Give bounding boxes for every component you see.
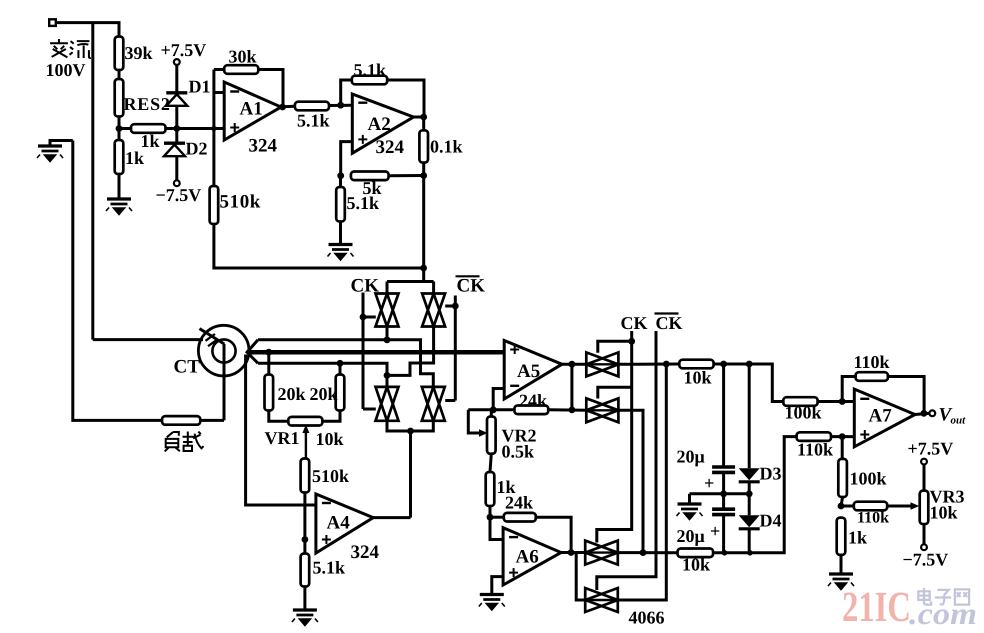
- svg-text:100k: 100k: [850, 469, 887, 489]
- op-amp A1: [224, 82, 281, 140]
- wire 510k down to block bottom: [214, 224, 424, 268]
- node 0.1k-5k junction: [420, 172, 427, 179]
- svg-text:39k: 39k: [125, 43, 153, 63]
- node A5 output: [569, 361, 576, 368]
- svg-text:24k: 24k: [505, 493, 533, 513]
- wire A2 output: [414, 116, 425, 119]
- svg-text:5.1k: 5.1k: [354, 60, 387, 80]
- ground bottom right: [829, 572, 853, 575]
- resistor 39k: [115, 37, 124, 71]
- wire CT secondary bottom: [258, 363, 387, 387]
- analog switch lower-left: [376, 387, 399, 421]
- wire 110k to VR3 wiper: [887, 505, 911, 508]
- node 20k tap: [337, 360, 344, 367]
- resistor 510k A1: [212, 129, 215, 187]
- wire G2 output drop: [618, 410, 643, 552]
- wire VR3 to -7.5V: [923, 524, 926, 544]
- svg-text:1k: 1k: [848, 528, 867, 548]
- wire left rail down to CT primary: [91, 23, 94, 340]
- wire connector upper gates: [387, 280, 434, 283]
- node 20k tap middle: [265, 349, 272, 356]
- svg-text:30k: 30k: [229, 47, 257, 67]
- node 24k right: [569, 407, 576, 414]
- analog switch G4: [585, 588, 618, 612]
- svg-text:24k: 24k: [519, 391, 547, 411]
- resistor 110k horizontal: [841, 505, 854, 508]
- wire A1 feedback vertical: [212, 70, 215, 129]
- node on CT top wire: [384, 336, 391, 343]
- wire feedback riser: [570, 364, 573, 410]
- label AC 100V: [50, 39, 68, 57]
- wire node row to opamp: [166, 127, 225, 130]
- node A1 output: [279, 104, 286, 111]
- wire 510k down through inputs: [303, 493, 306, 554]
- diode D4: [748, 494, 751, 516]
- svg-text:A7: A7: [869, 406, 893, 427]
- svg-text:10k: 10k: [930, 503, 958, 523]
- wire G2 control: [598, 387, 632, 398]
- wire G3 row through: [585, 551, 618, 553]
- ground A6: [480, 593, 504, 596]
- svg-text:10k: 10k: [682, 555, 710, 575]
- terminal AC input: [49, 19, 56, 26]
- svg-text:5.1k: 5.1k: [297, 111, 330, 131]
- wire 24k feedback row: [468, 408, 514, 411]
- wire 30k to A1 output: [258, 70, 283, 108]
- svg-text:100k: 100k: [785, 403, 822, 423]
- terminal -7.5V: [174, 180, 180, 186]
- svg-text:10k: 10k: [316, 429, 344, 449]
- node 5k left: [337, 172, 344, 179]
- CT core marks: [206, 334, 216, 341]
- wire G1 row through: [586, 363, 618, 365]
- op-amp A5: [504, 341, 562, 400]
- svg-text:D4: D4: [760, 511, 782, 531]
- wire CT primary from rail: [93, 338, 203, 341]
- svg-text:RES2: RES2: [124, 94, 171, 114]
- resistor 24k A5 feedback: [514, 406, 548, 415]
- analog switch upper-left CK: [376, 294, 399, 327]
- CT primary diagonal: [200, 329, 225, 344]
- svg-text:+7.5V: +7.5V: [161, 40, 207, 60]
- wire load to CT: [200, 419, 224, 422]
- VR1 wiper arrow: [305, 429, 307, 459]
- wire A6 output: [561, 551, 585, 554]
- node A6 feedback: [568, 549, 575, 556]
- resistor 1k VR2 chain: [490, 454, 491, 472]
- ground below 1k: [107, 197, 131, 200]
- wire A1 output: [283, 105, 295, 109]
- CT secondary fan: [247, 340, 258, 364]
- svg-text:324: 324: [249, 136, 278, 157]
- svg-text:324: 324: [376, 137, 405, 158]
- node junction divider: [116, 125, 123, 132]
- node divider: [838, 503, 845, 510]
- node block bottom: [420, 265, 427, 272]
- terminal Vout: [929, 410, 935, 416]
- wire +7.5V to D1: [175, 65, 178, 93]
- node A2 inverting input: [337, 102, 344, 109]
- svg-text:510k: 510k: [220, 192, 261, 213]
- resistor 5.1k A4: [301, 554, 310, 587]
- wire 0.1k node down to bowtie block: [422, 176, 425, 282]
- analog switch G1: [586, 352, 618, 376]
- svg-text:0.5k: 0.5k: [502, 442, 535, 462]
- node A7 output: [921, 410, 928, 417]
- diode D1: [166, 91, 187, 94]
- wire rail to A4 inverting: [246, 355, 316, 506]
- wire A6 plus to ground: [492, 577, 503, 594]
- ground A2: [329, 243, 353, 246]
- wire G4 row through: [585, 599, 618, 601]
- node A7 minus: [839, 398, 846, 405]
- wire A1 inverting input stub: [214, 91, 224, 94]
- ground A4: [293, 608, 317, 611]
- wire riser to A4 output: [409, 431, 412, 518]
- wire 1k to 24k node: [489, 506, 492, 517]
- svg-text:−7.5V: −7.5V: [903, 550, 949, 570]
- wire 1k to ground: [118, 174, 121, 199]
- svg-text:1k: 1k: [141, 131, 160, 151]
- op-amp A2: [352, 94, 413, 153]
- svg-text:110k: 110k: [854, 352, 890, 372]
- svg-text:D1: D1: [189, 77, 211, 97]
- current transformer CT inner: [212, 339, 235, 362]
- node G2-G3 join: [640, 549, 647, 556]
- node gates to A4: [407, 428, 414, 435]
- resistor RES2: [118, 70, 121, 79]
- svg-text:CK: CK: [621, 313, 648, 333]
- svg-text:CK: CK: [457, 276, 486, 297]
- wire CKbar control rail: [454, 296, 457, 401]
- ground mid right: [688, 494, 691, 504]
- svg-text:D3: D3: [760, 464, 782, 484]
- wire CK rail right: [597, 331, 632, 543]
- node A2 output: [420, 114, 427, 121]
- analog switch lower-right: [422, 387, 445, 421]
- resistor 5.1k feedback A2: [341, 80, 352, 105]
- node A7 plus: [839, 433, 846, 440]
- wire 24k to A6 output riser: [536, 517, 571, 552]
- wire D2 to -7.5V: [175, 156, 178, 180]
- node A5 feedback: [490, 406, 497, 413]
- node CK rail tap: [628, 338, 635, 345]
- wire G1 control: [598, 341, 632, 353]
- svg-text:A2: A2: [368, 114, 391, 135]
- watermark dianziwang: [918, 588, 931, 605]
- resistor 10k upper: [679, 360, 713, 369]
- svg-text:CK: CK: [351, 276, 380, 297]
- wire to ground A2: [339, 222, 342, 245]
- wire 110k to A7 plus: [831, 435, 854, 438]
- wire CT secondary top: [258, 340, 433, 387]
- resistor 30k feedback: [214, 68, 224, 71]
- wire A4 output: [373, 516, 410, 519]
- resistor 0.1k: [422, 117, 425, 130]
- wire CT primary down: [223, 344, 226, 420]
- wire cap to mid node: [722, 472, 725, 493]
- svg-text:20μ: 20μ: [677, 526, 705, 546]
- potentiometer VR2: [490, 410, 493, 417]
- resistor 5.1k to ground A2: [339, 176, 342, 187]
- wire top from terminal to 39k: [56, 23, 119, 37]
- wire left loop rail to load: [73, 141, 162, 421]
- resistor 110k feedback A7: [842, 377, 855, 402]
- terminal +7.5V: [174, 59, 180, 65]
- wire 100k to A7 minus: [818, 400, 855, 403]
- wire A6 inverting input: [490, 517, 503, 539]
- svg-text:20μ: 20μ: [677, 447, 705, 467]
- analog switch G3: [585, 541, 618, 565]
- capacitor 20u upper: [722, 364, 725, 467]
- label load: [165, 432, 180, 451]
- node cap tap: [720, 361, 727, 368]
- wire D1 to node row: [175, 106, 178, 143]
- potentiometer VR3: [920, 491, 929, 524]
- terminal -7.5V right: [921, 544, 927, 550]
- svg-text:1k: 1k: [125, 148, 144, 168]
- wire VR3 to +7.5V: [923, 464, 926, 490]
- potentiometer VR1: [269, 411, 289, 422]
- svg-text:A5: A5: [517, 361, 540, 382]
- wire CT secondary middle thick: [247, 350, 504, 355]
- op-amp A7: [854, 389, 915, 447]
- wire 10k to 100k corner: [714, 364, 784, 402]
- wire A5 inverting bracket: [493, 389, 504, 410]
- resistor 10k lower: [678, 549, 714, 558]
- node lower-left gate input: [384, 372, 391, 379]
- node D3 tap: [746, 361, 753, 368]
- wire G4 output riser: [618, 364, 667, 600]
- svg-text:110k: 110k: [857, 510, 889, 527]
- resistor 5.1k series: [295, 102, 329, 111]
- wire gate output row top: [618, 363, 679, 366]
- wire G2 row through: [586, 409, 618, 411]
- svg-text:20k: 20k: [278, 384, 306, 404]
- mid node row: [690, 492, 750, 495]
- resistor 100k input: [783, 397, 817, 406]
- diode D2: [164, 141, 185, 144]
- svg-text:CK: CK: [656, 313, 683, 333]
- svg-text:324: 324: [351, 542, 380, 563]
- op-amp A4: [316, 494, 373, 553]
- svg-text:A4: A4: [327, 513, 351, 534]
- analog switch G2: [586, 398, 618, 422]
- svg-text:A1: A1: [240, 99, 263, 120]
- svg-text:+: +: [704, 473, 714, 493]
- node G4 to output row: [663, 361, 670, 368]
- load resistor: [162, 416, 200, 425]
- op-amp A6: [503, 528, 561, 585]
- ground top-left: [50, 141, 73, 147]
- resistor 1k horizontal: [119, 127, 131, 130]
- svg-text:+: +: [710, 521, 720, 541]
- resistor 20k left: [267, 352, 270, 374]
- svg-text:110k: 110k: [797, 440, 833, 460]
- svg-text:4066: 4066: [629, 608, 665, 628]
- svg-text:D2: D2: [186, 139, 208, 159]
- wire A6 output to G4: [576, 553, 585, 601]
- svg-text:VR1: VR1: [265, 428, 300, 448]
- svg-text:21IC: 21IC: [842, 584, 911, 631]
- resistor 24k A6 feedback: [504, 513, 536, 522]
- resistor 1k vertical right: [837, 518, 846, 555]
- capacitor 20u lower: [722, 494, 725, 509]
- svg-text:20k: 20k: [310, 384, 338, 404]
- resistor 20k right: [339, 363, 342, 374]
- svg-text:100V: 100V: [46, 60, 86, 80]
- wire A7 output: [915, 413, 929, 414]
- wire gate output row bottom: [618, 551, 678, 554]
- svg-text:5.1k: 5.1k: [347, 193, 380, 213]
- terminal +7.5V right: [921, 459, 927, 465]
- analog switch upper-right CKbar: [422, 294, 445, 327]
- wire lower gate outputs join: [387, 421, 433, 431]
- wire CK control rail: [362, 293, 365, 410]
- svg-text:510k: 510k: [312, 466, 349, 486]
- node A6 input: [487, 514, 494, 521]
- wire 1k to ground right: [840, 555, 843, 574]
- wire A5 output: [562, 363, 586, 366]
- wire upper-left gate output: [386, 327, 389, 340]
- resistor 5k: [351, 172, 389, 181]
- wire to ground A4: [303, 587, 306, 610]
- resistor 510k A4: [301, 459, 310, 493]
- svg-text:CT: CT: [174, 357, 201, 378]
- resistor 100k vertical: [841, 437, 844, 459]
- svg-text:−7.5V: −7.5V: [156, 185, 202, 205]
- svg-text:10k: 10k: [684, 368, 712, 388]
- svg-text:+7.5V: +7.5V: [908, 439, 954, 459]
- svg-text:5.1k: 5.1k: [313, 558, 346, 578]
- svg-text:.com: .com: [909, 596, 977, 631]
- wire A2 noninverting path: [341, 142, 353, 176]
- wire upper-right gate output jog: [387, 327, 434, 376]
- wire lower row to 110k corner: [713, 437, 797, 553]
- wire 5.1k to A2 input: [329, 104, 352, 107]
- wire 100k to node: [841, 497, 843, 506]
- wire CKbar rail right: [597, 331, 656, 590]
- potentiometer VR2 wiper bracket: [468, 410, 482, 433]
- svg-text:out: out: [951, 415, 967, 427]
- resistor 1k vertical: [118, 129, 121, 141]
- wire RES2 to node: [118, 117, 121, 129]
- node A4 plus input: [302, 536, 309, 543]
- svg-text:0.1k: 0.1k: [430, 137, 463, 157]
- current transformer CT outer: [198, 325, 249, 376]
- diode D3: [748, 364, 751, 468]
- resistor 110k input: [797, 432, 831, 441]
- svg-text:A6: A6: [516, 547, 539, 568]
